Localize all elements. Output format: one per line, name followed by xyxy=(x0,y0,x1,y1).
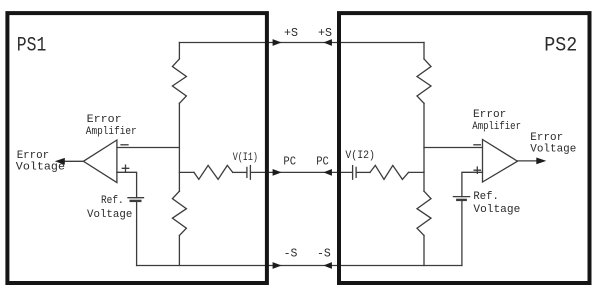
box PS2 enclosure xyxy=(339,13,590,283)
arrowhead U1 output (Error Voltage, points left) xyxy=(55,158,65,165)
resistor R5 (PS2 upper divider) xyxy=(417,59,431,103)
wire PC branch PS1 (node to resistor) xyxy=(179,171,194,173)
svg-text:Voltage: Voltage xyxy=(530,144,576,156)
svg-text:+S: +S xyxy=(284,26,298,40)
wire B2 to -S rail xyxy=(461,200,463,266)
pin label minus U2 xyxy=(474,144,481,146)
wire R4 to PS2 divider node xyxy=(409,171,425,173)
svg-text:-S: -S xyxy=(284,247,298,261)
svg-text:Voltage: Voltage xyxy=(87,209,132,221)
wire PC rail across gap xyxy=(251,171,352,173)
wire PS2 divider vertical bottom segment xyxy=(423,236,425,266)
capacitor C1 (PS1 coupling) xyxy=(246,167,248,177)
arrowhead -S terminal PS2 (points left) xyxy=(323,262,332,269)
box PS1 enclosure xyxy=(7,13,267,283)
battery B1 (PS1 reference) xyxy=(128,197,144,199)
arrowhead +S terminal PS1 (points right) xyxy=(273,39,282,46)
wire PS1 divider vertical bottom segment xyxy=(178,236,180,266)
wire B1 to -S rail xyxy=(136,201,138,266)
svg-text:Error: Error xyxy=(530,132,563,144)
svg-text:PS1: PS1 xyxy=(17,34,47,57)
resistor R6 (PS2 lower divider) xyxy=(417,191,431,235)
wire PS1 divider vertical top segment xyxy=(178,43,180,59)
pin label minus U1 xyxy=(121,144,128,146)
resistor R1 (PS1 upper divider) xyxy=(172,59,186,103)
resistor R4 (PS2 parallel control) xyxy=(370,165,409,179)
op-amp U2 (PS2 error amplifier, pointing right) xyxy=(483,140,518,183)
svg-text:PS2: PS2 xyxy=(544,35,577,58)
op-amp U1 (PS1 error amplifier, pointing left) xyxy=(83,140,117,183)
svg-text:PC: PC xyxy=(316,155,329,169)
svg-text:Error: Error xyxy=(87,114,122,126)
wire C2 to R4 xyxy=(357,171,370,173)
svg-text:+S: +S xyxy=(318,26,332,40)
wire -S rail (PS1 ref return to PS2 ref return) xyxy=(137,265,462,267)
battery B2 (PS2 reference) xyxy=(453,196,469,198)
svg-text:-S: -S xyxy=(317,247,331,261)
arrowhead PC terminal PS2 (points left) xyxy=(323,169,332,176)
svg-text:V(I1): V(I1) xyxy=(233,152,258,164)
wire +S rail (PS1 divider top to PS2 divider top) xyxy=(179,42,424,44)
wire PS2 divider vertical middle segment xyxy=(423,103,425,191)
arrowhead -S terminal PS1 (points right) xyxy=(273,262,282,269)
svg-text:V(I2): V(I2) xyxy=(345,150,375,162)
wire PS2 divider vertical top segment xyxy=(423,43,425,59)
svg-text:Amplifier: Amplifier xyxy=(472,121,521,133)
arrowhead PC terminal PS1 (points right) xyxy=(273,169,282,176)
svg-text:Voltage: Voltage xyxy=(16,162,65,174)
wire U1 output xyxy=(65,160,84,162)
resistor R3 (PS1 parallel control) xyxy=(194,165,233,179)
wire U1 inverting input xyxy=(117,147,179,149)
wire R3 to C1 xyxy=(233,171,247,173)
resistor R2 (PS1 lower divider) xyxy=(172,191,186,235)
pin label plus U1 xyxy=(122,165,128,171)
svg-text:Amplifier: Amplifier xyxy=(86,126,137,138)
svg-text:Error: Error xyxy=(17,150,50,162)
svg-text:Voltage: Voltage xyxy=(473,204,520,216)
svg-text:PC: PC xyxy=(283,155,296,169)
wire PS1 divider vertical middle segment xyxy=(178,103,180,191)
wire U2 noninverting input xyxy=(462,172,483,196)
pin label plus U2 xyxy=(474,167,480,173)
svg-text:Error: Error xyxy=(473,109,506,121)
arrowhead U2 output (Error Voltage, points right) xyxy=(536,158,546,165)
arrowhead +S terminal PS2 (points left) xyxy=(323,39,332,46)
wire U1 noninverting input xyxy=(117,172,137,197)
wire U2 inverting input xyxy=(424,147,483,149)
capacitor C2 (PS2 coupling) xyxy=(352,166,354,180)
svg-text:Ref.: Ref. xyxy=(101,195,124,207)
svg-text:Ref.: Ref. xyxy=(473,191,498,203)
wire U2 output xyxy=(518,160,538,162)
